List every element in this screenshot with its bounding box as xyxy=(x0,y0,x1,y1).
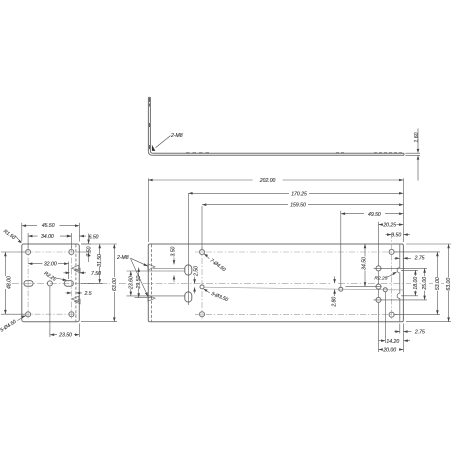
svg-text:R2.25: R2.25 xyxy=(374,276,387,282)
slot right (stadium) xyxy=(64,281,73,287)
svg-text:3-Ø3.50: 3-Ø3.50 xyxy=(210,291,229,303)
main plate outline xyxy=(148,244,403,322)
svg-text:48.00: 48.00 xyxy=(6,276,12,289)
leader 3-O3.50 xyxy=(204,289,210,293)
hidden hole dashes on vertical leg xyxy=(148,98,150,107)
dim 34.00 line xyxy=(28,235,71,237)
dim 202.00 xyxy=(148,179,403,181)
left view plate outline xyxy=(22,244,80,322)
main view ext+dim lines xyxy=(127,178,452,352)
svg-text:34.50: 34.50 xyxy=(362,257,368,270)
horizontal leg bottom line xyxy=(153,154,404,156)
svg-text:18.00: 18.00 xyxy=(413,277,419,290)
dim 63.00 xyxy=(81,244,117,322)
svg-text:1.60: 1.60 xyxy=(414,132,420,142)
svg-text:45.50: 45.50 xyxy=(42,223,55,229)
hole O4.50 right top xyxy=(389,249,394,254)
svg-text:7-Ø4.50: 7-Ø4.50 xyxy=(209,258,227,273)
svg-text:7.50: 7.50 xyxy=(91,271,101,277)
ext strip down + dims bottom xyxy=(400,324,404,353)
ext circle col up xyxy=(201,206,203,249)
dim 48.00 xyxy=(1,252,25,314)
vertical leg right line xyxy=(149,97,151,151)
hole O4.50 colA top xyxy=(376,266,381,271)
hole O3.50 left mid xyxy=(200,285,204,289)
svg-text:7.50: 7.50 xyxy=(86,246,92,256)
left bend line (dashed) xyxy=(150,244,152,321)
dim 23.50 xyxy=(50,287,79,338)
svg-text:25.00: 25.00 xyxy=(422,277,428,291)
hole top-left xyxy=(26,250,31,255)
ext mid circle up xyxy=(340,211,342,287)
weld triangle top big xyxy=(72,265,79,271)
leader R2.25 left view xyxy=(56,278,66,280)
inner corner fillet xyxy=(150,151,153,153)
dim 170.25 xyxy=(188,192,403,194)
weld triangle main top xyxy=(148,264,155,270)
leader R2.25 right xyxy=(387,272,397,277)
dim 2.50 xyxy=(194,277,196,294)
hidden hole dashes on horizontal leg xyxy=(149,98,402,153)
svg-text:53.00: 53.00 xyxy=(435,277,441,290)
svg-text:6.50: 6.50 xyxy=(89,234,99,240)
slot top (stadium) xyxy=(185,265,192,275)
hole O4.50 left top xyxy=(200,250,205,255)
hole top-right xyxy=(69,250,74,255)
MAIN VIEW xyxy=(148,244,404,322)
hole bottom-left xyxy=(26,312,31,317)
horizontal leg right cap xyxy=(403,153,404,155)
svg-text:34.00: 34.00 xyxy=(41,234,54,240)
LEFT VIEW xyxy=(22,244,80,322)
outer corner fillet xyxy=(148,151,152,155)
svg-text:23.50: 23.50 xyxy=(58,333,72,339)
svg-text:R1.50: R1.50 xyxy=(2,228,16,241)
dim 63.00 right xyxy=(406,244,451,322)
dimension 1.60 xyxy=(405,129,420,181)
hole O3.50 mid xyxy=(339,287,343,291)
dim 9.50 xyxy=(386,234,411,236)
ext right edge up xyxy=(402,178,404,242)
hole O4.50 colA mid xyxy=(376,284,381,289)
svg-text:63.00: 63.00 xyxy=(112,278,118,291)
hole bottom-right xyxy=(69,312,74,317)
ext colA xyxy=(378,222,380,352)
dim 25.00 xyxy=(374,268,428,300)
ext slot col up xyxy=(187,194,189,306)
leader 7-O4.50 xyxy=(204,254,209,259)
dim 49.50 xyxy=(341,213,404,215)
svg-text:14.20: 14.20 xyxy=(386,339,399,345)
svg-text:9.50: 9.50 xyxy=(391,233,401,239)
vertical leg left line xyxy=(147,97,149,151)
dim 7.50 top right vertical xyxy=(77,244,92,252)
left view centerlines xyxy=(24,247,77,320)
svg-text:3.50: 3.50 xyxy=(171,246,177,256)
slot bottom (stadium) xyxy=(185,292,192,302)
svg-text:2-M8: 2-M8 xyxy=(116,255,129,261)
svg-text:20.25: 20.25 xyxy=(382,223,396,229)
dim 18.00 xyxy=(401,270,418,296)
main view centerlines xyxy=(195,233,397,320)
hole center xyxy=(47,281,52,286)
ext left edge up xyxy=(147,178,149,242)
dim 14.20 xyxy=(379,340,411,342)
left view bend line (dashed) xyxy=(75,244,77,321)
TOP VIEW GROUP xyxy=(148,97,404,155)
vertical leg top cap xyxy=(148,96,150,98)
dim 2.5 strip xyxy=(66,292,83,294)
right bend line with notches xyxy=(397,244,400,322)
hole O4.50 left bottom xyxy=(200,312,205,317)
dim 34.50 xyxy=(364,244,366,287)
svg-text:2.80: 2.80 xyxy=(332,297,338,308)
dim 7.50 strip xyxy=(64,272,87,274)
svg-text:2-M8: 2-M8 xyxy=(170,133,183,139)
slot left (stadium) xyxy=(24,281,33,287)
dim 31.50 xyxy=(81,282,103,284)
horizontal leg top line xyxy=(153,152,404,154)
svg-text:159.50: 159.50 xyxy=(290,203,306,209)
leader 5-O4.50 xyxy=(17,316,25,321)
svg-text:170.25: 170.25 xyxy=(291,191,307,197)
dim 32.00 line xyxy=(28,263,68,265)
hole O3.50 colC xyxy=(383,288,387,292)
dim 34.00 ext xyxy=(28,233,71,249)
leader R1.50 xyxy=(15,235,21,242)
svg-text:202.00: 202.00 xyxy=(259,178,276,184)
mid hole row line xyxy=(205,287,404,290)
dim 20.00 xyxy=(379,349,404,351)
M8 nut weld mark (filled) xyxy=(152,145,156,151)
dim 2.75 bottom xyxy=(394,331,411,333)
leader to 2-M8 label xyxy=(156,136,171,148)
dim 6.50 arrows lines xyxy=(66,235,86,237)
weld triangle bottom small xyxy=(75,299,81,304)
GLOBAL horizontal centerline xyxy=(12,283,444,285)
svg-text:2.75: 2.75 xyxy=(414,256,425,262)
svg-text:32.00: 32.00 xyxy=(44,262,57,268)
svg-text:63.00: 63.00 xyxy=(446,278,452,291)
svg-text:49.50: 49.50 xyxy=(368,212,381,218)
weld triangle top small xyxy=(75,268,81,273)
svg-text:2.5: 2.5 xyxy=(84,291,92,297)
leader 2-M8 main xyxy=(131,258,149,266)
dim 2.80 xyxy=(334,277,336,297)
dim 2.75 top xyxy=(394,257,411,259)
weld triangle main bottom xyxy=(148,295,155,301)
svg-text:29.50: 29.50 xyxy=(136,276,142,290)
dim 45.50 ext lines xyxy=(22,223,80,242)
svg-text:2.50: 2.50 xyxy=(194,266,200,277)
weld triangle bottom big xyxy=(72,296,79,302)
dimension texts: main view xyxy=(116,178,452,353)
svg-text:20.00: 20.00 xyxy=(382,347,396,353)
dim 3.50 xyxy=(173,258,175,283)
dimension texts: left view xyxy=(0,223,118,339)
left view dimensions xyxy=(1,223,117,337)
dim 53.00 xyxy=(395,252,441,315)
svg-text:5-Ø4.50: 5-Ø4.50 xyxy=(0,319,18,334)
svg-text:31.50: 31.50 xyxy=(97,254,103,267)
arrowheads: left view dimensions (45.50, 34.00, 6.50, 7.50, 31.50, 63.00, 32.00, R2.25, 7.50, 2.5, 23.50, 48.00, R1.50, 5-d4.50) xyxy=(4,224,116,336)
dim 45.50 line xyxy=(22,225,80,227)
svg-text:2.75: 2.75 xyxy=(414,329,425,335)
dim 23.60 + 29.50 left of main view xyxy=(127,271,186,296)
arrowheads: main view dimensions (202.00, 170.25, 159.50, 49.50, 20.25, 9.50, 2.75, 34.50, 2.80, 18.00, 25.00, 53.00, 63.00, 14.20, 20.00, 23.60, 29.50, 3.50, 2.50, leaders) xyxy=(130,179,450,351)
hole O4.50 right bottom xyxy=(389,312,394,317)
dim 159.50 xyxy=(202,204,403,206)
dim 20.25 xyxy=(379,224,404,226)
hole O4.50 colA bottom xyxy=(376,297,381,302)
svg-text:23.60: 23.60 xyxy=(128,276,134,290)
